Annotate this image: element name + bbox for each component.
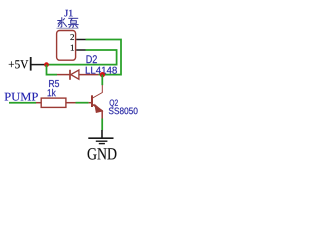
net label PUMP: [5, 93, 38, 101]
underline under comment label: [57, 27, 79, 29]
resistor R5 designator: [49, 80, 59, 87]
resistor R5 value 1k: [48, 89, 56, 96]
diode D2 value LL4148: [86, 67, 117, 74]
wire +5V dot down to diode cathode: [47, 65, 58, 75]
resistor R5 symbol: [36, 98, 76, 107]
wire PUMP to resistor: [9, 102, 36, 104]
junction dot at +5V node: [44, 62, 49, 67]
ground label GND: [88, 148, 117, 159]
wire diode anode to node: [99, 74, 103, 76]
wire emitter to ground: [101, 119, 103, 131]
wire pin1 to +5V rail: [47, 50, 117, 65]
transistor Q2 value SS8050: [109, 108, 138, 115]
ground symbol: [88, 130, 113, 144]
diode D2 designator: [87, 55, 97, 63]
power port +5V label: [9, 60, 29, 68]
diode D2 symbol: [57, 70, 99, 80]
pin 2 stub: [76, 39, 85, 41]
connector J1 body: [57, 31, 76, 61]
pin 1 stub: [76, 49, 85, 51]
transistor Q2 symbol: [89, 85, 103, 119]
pin number 1: [71, 45, 74, 51]
wire resistor to base: [76, 102, 89, 104]
junction dot collector node: [100, 72, 105, 77]
power port +5V lead: [32, 64, 46, 66]
power port +5V bar: [30, 57, 32, 71]
pin number 2: [70, 34, 74, 40]
connector J1 designator label: [65, 10, 73, 17]
wire node down to collector pin: [101, 75, 103, 86]
connector J1 comment label (water pump): [57, 17, 78, 27]
transistor Q2 designator: [110, 100, 118, 108]
wire pin2 to collector node: [86, 40, 122, 75]
